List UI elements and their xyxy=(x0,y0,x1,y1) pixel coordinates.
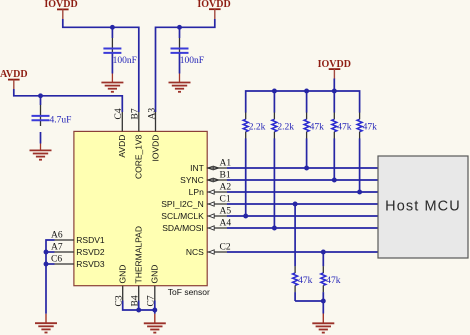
junction RSVD2 xyxy=(44,250,49,255)
resistor 2.2k pull-up SDA xyxy=(272,113,294,229)
pin RSVD3 C6 (left) xyxy=(51,255,105,269)
junction GND C7 xyxy=(152,308,157,313)
pin SCL/MCLK A5 (right) xyxy=(161,207,231,222)
pin RSVD2 A7 (left) xyxy=(51,243,105,257)
junction pull-down ground xyxy=(321,299,326,304)
svg-text:100nF: 100nF xyxy=(113,56,137,66)
ground bottom-left xyxy=(35,323,57,332)
svg-text:AVDD: AVDD xyxy=(117,135,127,158)
resistor 2.2k pull-up SCL xyxy=(243,113,265,217)
resistor 47k pull-up INT xyxy=(304,113,324,169)
svg-text:IOVDD: IOVDD xyxy=(150,135,160,162)
wire SYNC row xyxy=(227,179,378,181)
svg-text:C2: C2 xyxy=(220,243,231,253)
svg-text:LPn: LPn xyxy=(189,187,204,197)
svg-text:B7: B7 xyxy=(131,108,141,119)
svg-text:SPI_I2C_N: SPI_I2C_N xyxy=(161,199,204,209)
wire IOVDD#1 to CORE_1V8 pin B7 xyxy=(63,19,139,112)
svg-text:RSDV1: RSDV1 xyxy=(76,235,105,245)
pin SDA/MOSI A4 (right) xyxy=(162,219,231,234)
junction NCS pull-down xyxy=(321,250,326,255)
wire NCS to pull-down R7 xyxy=(322,252,324,266)
pin IOVDD A3 (top) xyxy=(147,108,160,162)
svg-text:47k: 47k xyxy=(310,122,325,132)
svg-text:47k: 47k xyxy=(337,122,352,132)
power port IOVDD (right, pull-up rail) xyxy=(318,59,351,79)
wire NCS row xyxy=(227,251,378,253)
svg-text:C1: C1 xyxy=(220,195,231,205)
wire SCL/MCLK row xyxy=(227,215,378,217)
wire AVDD to pin C4 xyxy=(14,89,123,112)
pin NCS C2 (right) xyxy=(186,243,231,258)
resistor 47k pull-up LPn xyxy=(357,113,377,193)
ground lead bottom-left xyxy=(45,314,47,323)
svg-text:B1: B1 xyxy=(220,171,231,181)
power port IOVDD (top middle) xyxy=(197,0,230,19)
wire SPI_I2C_N row xyxy=(227,203,378,205)
pin GND C3 (bottom) xyxy=(115,265,128,307)
svg-text:AVDD: AVDD xyxy=(0,69,28,80)
pin AVDD C4 (top) xyxy=(114,108,127,157)
Host MCU block xyxy=(378,156,468,258)
wire SPI_I2C_N to pull-down R6 xyxy=(294,204,296,266)
svg-text:2.2k: 2.2k xyxy=(277,122,294,132)
svg-text:SYNC: SYNC xyxy=(180,175,204,185)
wire pull-down commons xyxy=(295,301,323,314)
svg-text:2.2k: 2.2k xyxy=(249,122,266,132)
svg-text:A1: A1 xyxy=(220,159,232,169)
svg-text:THERMALPAD: THERMALPAD xyxy=(134,226,144,283)
svg-text:INT: INT xyxy=(190,163,204,173)
junction SDA pull-up xyxy=(272,226,277,231)
pin SYNC B1 (right) xyxy=(180,171,231,186)
capacitor 100nF (IOVDD decoupling) xyxy=(171,27,204,82)
junction bus R3 xyxy=(304,89,309,94)
power port AVDD (left) xyxy=(0,69,28,89)
pin SPI_I2C_N C1 (right) xyxy=(161,195,231,210)
svg-text:GND: GND xyxy=(118,265,128,284)
svg-text:47k: 47k xyxy=(363,122,378,132)
svg-text:GND: GND xyxy=(150,265,160,284)
svg-text:A4: A4 xyxy=(220,219,232,229)
svg-text:47k: 47k xyxy=(298,276,313,286)
ground lead bottom-right xyxy=(322,314,324,324)
wire INT row xyxy=(227,167,378,169)
resistor 47k pull-down NCS xyxy=(321,266,341,301)
svg-text:A3: A3 xyxy=(147,108,157,120)
junction INT pull-up xyxy=(304,166,309,171)
svg-text:100nF: 100nF xyxy=(180,56,204,66)
junction C1 top xyxy=(110,25,115,30)
svg-text:ToF sensor: ToF sensor xyxy=(168,287,210,297)
junction LPn pull-up xyxy=(357,190,362,195)
pull-up rail bus xyxy=(246,91,360,113)
ground under 100nF #1 xyxy=(101,83,123,92)
junction GND B4 xyxy=(136,308,141,313)
capacitor 4.7uF (AVDD decoupling) xyxy=(32,96,72,151)
svg-text:Host MCU: Host MCU xyxy=(385,199,461,215)
ground under 4.7uF xyxy=(30,150,52,159)
junction SCL pull-up xyxy=(243,214,248,219)
pin LPn A2 (right) xyxy=(189,183,232,198)
junction C2 top xyxy=(177,25,182,30)
junction bus IOVDD xyxy=(332,89,337,94)
wire LPn row xyxy=(227,191,378,193)
wire IOVDD#2 to IOVDD pin A3 xyxy=(156,19,215,112)
svg-text:C4: C4 xyxy=(114,108,124,119)
svg-text:RSVD3: RSVD3 xyxy=(76,259,105,269)
pin GND C7 (bottom) xyxy=(147,265,160,307)
power port IOVDD (top left) xyxy=(44,0,77,19)
svg-text:A2: A2 xyxy=(220,183,232,193)
wire RSVD pins to ground xyxy=(46,240,55,314)
svg-text:A5: A5 xyxy=(220,207,232,217)
capacitor 100nF (CORE_1V8 decoupling) xyxy=(103,27,136,82)
svg-text:47k: 47k xyxy=(326,276,341,286)
svg-text:CORE_1V8: CORE_1V8 xyxy=(134,134,144,179)
svg-text:RSVD2: RSVD2 xyxy=(76,247,105,257)
resistor 47k pull-down SPI_I2C_N xyxy=(293,266,313,301)
pin CORE_1V8 B7 (top) xyxy=(131,108,144,179)
svg-text:SDA/MOSI: SDA/MOSI xyxy=(162,223,204,233)
junction SPI_I2C_N pull-down xyxy=(293,202,298,207)
pin RSDV1 A6 (left) xyxy=(51,231,105,245)
pin INT A1 (right) xyxy=(190,159,231,174)
wire GND pins bus xyxy=(123,301,155,311)
junction C3 top xyxy=(38,93,43,98)
svg-text:NCS: NCS xyxy=(186,247,204,257)
junction SYNC pull-up xyxy=(332,178,337,183)
junction RSVD3 xyxy=(44,262,49,267)
svg-text:SCL/MCLK: SCL/MCLK xyxy=(161,211,204,221)
ground lead under IC xyxy=(154,314,156,324)
ground under IC xyxy=(144,323,166,332)
ground under 100nF #2 xyxy=(169,83,191,92)
wire SDA/MOSI row xyxy=(227,227,378,229)
IC U1 ToF sensor body xyxy=(74,131,207,285)
junction bus R2 xyxy=(272,89,277,94)
svg-text:4.7uF: 4.7uF xyxy=(50,116,72,126)
resistor 47k pull-up SYNC xyxy=(332,113,352,181)
ground bottom-right xyxy=(312,323,334,332)
pin THERMALPAD B4 (bottom) xyxy=(131,226,144,306)
